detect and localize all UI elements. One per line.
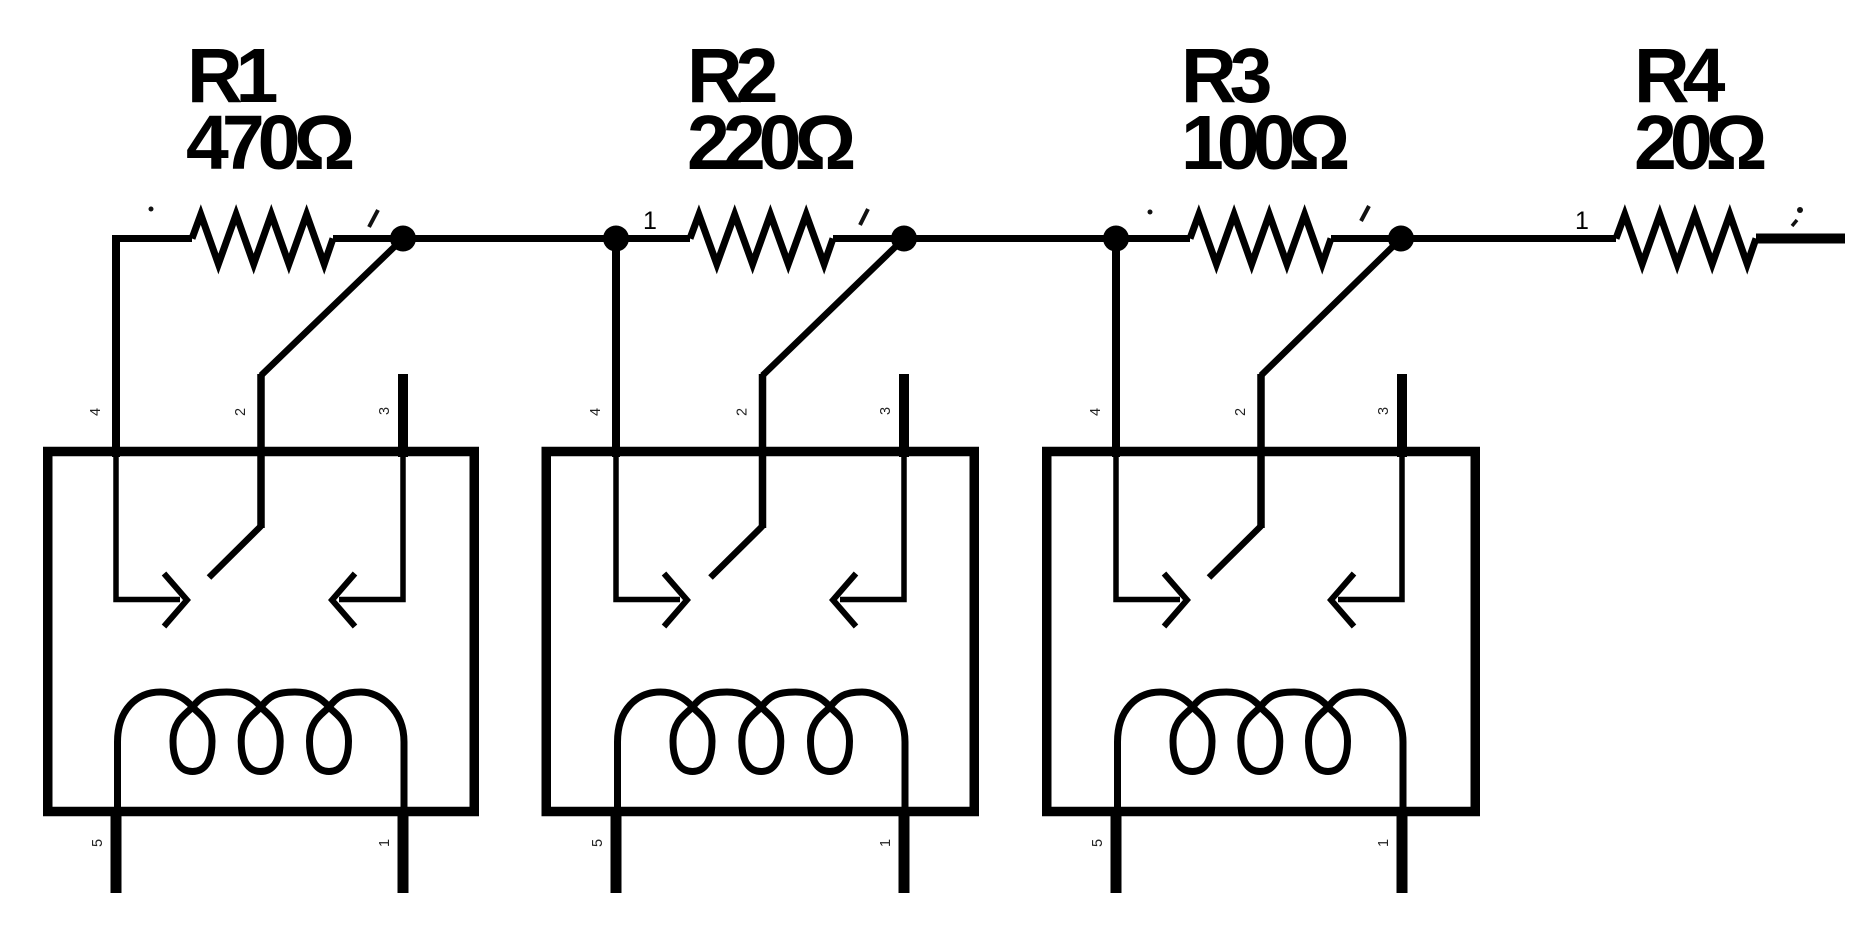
junction node A	[390, 226, 416, 252]
relay K2 coil pin 1 lead (bottom right)	[899, 808, 910, 893]
junction node E	[1388, 226, 1414, 252]
relay K3 pin 4 lead (left, from top wire)	[1112, 239, 1120, 458]
relay K3 body box	[1047, 452, 1476, 812]
relay K3 pin 2 diagonal wire from node	[1261, 239, 1401, 376]
relay K1 pin 4 internal wire and arrow	[116, 450, 180, 600]
relay K1 coil pin 1 lead (bottom right)	[398, 808, 409, 893]
relay K3 coil pin 1 lead (bottom right)	[1397, 808, 1408, 893]
svg-text:1: 1	[643, 207, 657, 235]
relay K2 pin 4 internal wire and arrow	[616, 450, 680, 600]
relay K1 pin 4 lead (left, from top wire)	[112, 239, 120, 458]
relay K2 switch lever	[711, 526, 763, 578]
junction node B	[603, 226, 629, 252]
svg-text:4: 4	[88, 408, 104, 416]
resistor R2 zigzag 220 ohm	[690, 215, 833, 265]
relay K2 body box	[546, 452, 974, 812]
wire R4 pin2 stub (thick)	[1756, 234, 1845, 244]
R1 pin1 number mark	[149, 207, 154, 212]
svg-text:100Ω: 100Ω	[1181, 100, 1347, 186]
relay K3 coil	[1118, 692, 1404, 813]
svg-text:2: 2	[735, 408, 751, 416]
relay K2 pin 3 lead stub (right top)	[899, 374, 909, 457]
svg-text:220Ω: 220Ω	[687, 100, 853, 186]
R1 pin2 number mark (eroded 2)	[369, 210, 378, 227]
R3 pin1 number mark	[1148, 210, 1153, 215]
relay K1 coil	[118, 692, 405, 813]
resistor R1 zigzag 470 ohm	[192, 215, 333, 265]
svg-text:5: 5	[590, 839, 606, 847]
relay K2 coil pin 5 lead (bottom left)	[611, 808, 622, 893]
wire node A to node B	[403, 235, 616, 242]
resistor R3 zigzag 100 ohm	[1190, 215, 1331, 265]
wire node E to R4 pin1	[1401, 235, 1616, 242]
svg-text:3: 3	[377, 407, 393, 415]
wire top-left corner to R1 pin1	[116, 239, 193, 453]
wire node C to node D	[904, 235, 1116, 242]
svg-text:4: 4	[1088, 408, 1104, 416]
relay K3 switch lever	[1209, 526, 1261, 578]
svg-text:2: 2	[1233, 408, 1249, 416]
svg-text:1: 1	[1376, 839, 1392, 847]
svg-text:5: 5	[90, 839, 106, 847]
relay K1 body box	[48, 452, 475, 812]
relay K1 pin 2 diagonal wire from node	[261, 239, 403, 376]
svg-text:5: 5	[1090, 839, 1106, 847]
relay K3 pin 2 vertical lead	[1257, 374, 1265, 528]
wire node D to R3 pin1	[1116, 235, 1190, 242]
wire node B to R2 pin1	[616, 235, 690, 242]
relay K3 pin 4 internal wire and arrow	[1116, 450, 1180, 600]
relay K2 pin 3 internal wire and arrow	[840, 450, 904, 600]
relay K2 pin 2 vertical lead	[759, 374, 767, 528]
svg-text:2: 2	[233, 408, 249, 416]
svg-text:3: 3	[878, 407, 894, 415]
resistor R4 zigzag 20 ohm	[1616, 215, 1756, 265]
relay K1 pin 3 lead stub (right top)	[398, 374, 408, 457]
svg-text:1: 1	[377, 839, 393, 847]
relay K3 pin 3 lead stub (right top)	[1397, 374, 1407, 457]
R4 pin2 number mark (eroded 2)	[1797, 207, 1803, 213]
relay K1 coil pin 5 lead (bottom left)	[111, 808, 122, 893]
relay K2 pin 4 lead (left, from top wire)	[612, 239, 620, 458]
relay K1 switch lever	[209, 526, 261, 578]
wire R1 pin2 to node A	[333, 235, 403, 242]
svg-text:20Ω: 20Ω	[1634, 100, 1765, 186]
relay K2 coil	[618, 692, 906, 813]
R3 pin2 number mark (eroded 2)	[1361, 206, 1369, 221]
svg-text:470Ω: 470Ω	[186, 100, 352, 186]
svg-text:3: 3	[1376, 407, 1392, 415]
svg-text:1: 1	[1575, 207, 1589, 235]
junction node C	[891, 226, 917, 252]
svg-text:1: 1	[878, 839, 894, 847]
junction node D	[1103, 226, 1129, 252]
R2 pin2 number mark (eroded 2)	[860, 209, 868, 225]
relay K2 pin 2 diagonal wire from node	[763, 239, 905, 376]
svg-text:4: 4	[588, 408, 604, 416]
relay K1 pin 3 internal wire and arrow	[339, 450, 403, 600]
wire R3 pin2 to node E	[1331, 235, 1401, 242]
relay K1 pin 2 vertical lead	[257, 374, 265, 528]
wire R2 pin2 to node C	[833, 235, 904, 242]
relay K3 pin 3 internal wire and arrow	[1338, 450, 1402, 600]
relay K3 coil pin 5 lead (bottom left)	[1111, 808, 1122, 893]
